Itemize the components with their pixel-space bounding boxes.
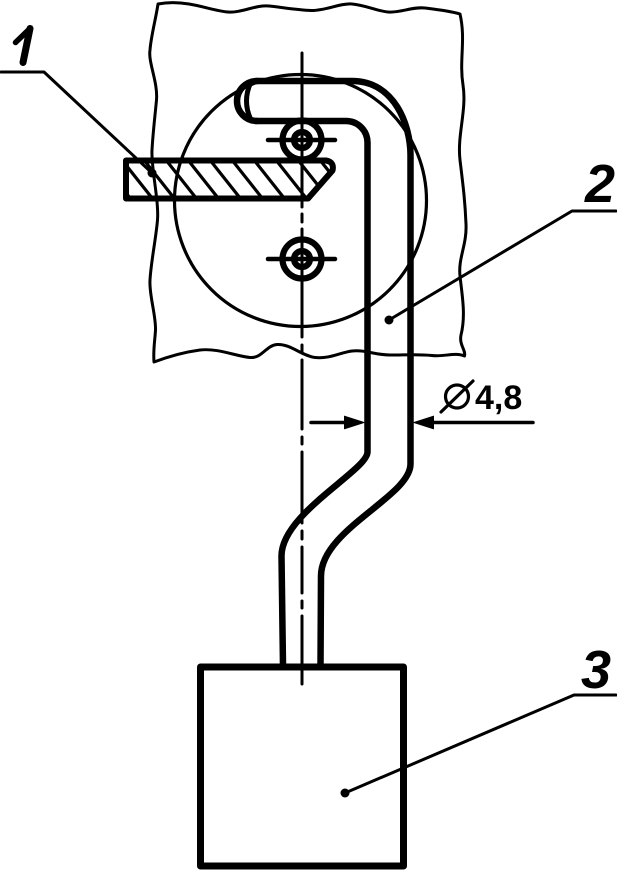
- screw S1 inner circle: [294, 132, 310, 148]
- screw S2 horizontal centerline: [268, 257, 335, 262]
- svg-text:4,8: 4,8: [475, 379, 522, 417]
- rod end face edge: [247, 83, 251, 119]
- rod outer contour (top edge, outer bend, right side, S-bend, down to box): [257, 81, 411, 666]
- leader dot 1: [148, 169, 157, 178]
- dimension line left part: [311, 421, 346, 425]
- panel (broken-out wall piece, wavy border): [150, 3, 466, 362]
- centerline (dash-dot axis): [301, 53, 304, 684]
- diameter symbol: [446, 385, 469, 408]
- leader line 3: [345, 695, 616, 793]
- screw S1 horizontal centerline: [268, 138, 335, 143]
- box (item 3): [201, 667, 404, 866]
- screw S1 outer circle: [283, 121, 322, 160]
- svg-text:3: 3: [581, 640, 611, 700]
- dimension arrow left (points right): [345, 416, 365, 429]
- dimension arrow right (points left): [414, 416, 434, 429]
- svg-text:2: 2: [584, 154, 615, 214]
- dimension line right part: [432, 421, 533, 425]
- rod inner contour (bottom edge, inner bend, left side, S-bend, down to box): [257, 121, 368, 666]
- screw S2 outer circle: [283, 240, 322, 279]
- leader line 1: [1, 72, 152, 173]
- rod end cap (rounded left end): [237, 81, 257, 121]
- label 1: [16, 28, 31, 63]
- leader dot 3: [341, 789, 350, 798]
- leader line 2: [389, 211, 616, 320]
- leader dot 2: [385, 316, 394, 325]
- hole circle in panel: [175, 75, 427, 327]
- latch plate (item 1) outline: [126, 161, 333, 199]
- screw S2 inner circle: [294, 251, 310, 267]
